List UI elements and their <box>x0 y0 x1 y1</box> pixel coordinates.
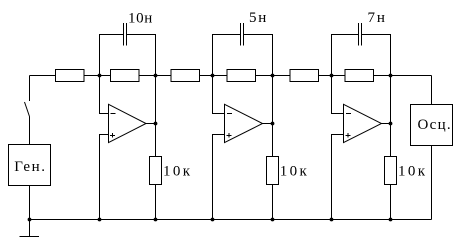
capacitor C2 loop right wire <box>244 35 273 76</box>
capacitor C3 loop left wire <box>332 35 359 76</box>
wire: U3 output to node B3 <box>382 123 391 125</box>
op-amp U2 <box>225 104 263 142</box>
resistor R7 load 10к stage 1 <box>150 157 162 185</box>
wire: node A1 vertical down to inverting input <box>100 76 109 114</box>
oscilloscope box <box>411 105 453 146</box>
op-amp U2 minus sign <box>227 113 232 115</box>
wire: node A3 vertical down to inverting input <box>332 76 344 114</box>
node: bottom rail dot at A3 <box>330 218 334 222</box>
op-amp U3 plus sign <box>346 133 351 138</box>
svg-text:7н: 7н <box>368 10 387 26</box>
switch S1 <box>25 102 30 117</box>
ground stub wire <box>29 220 31 237</box>
node: bottom rail dot at A1 <box>98 218 102 222</box>
resistor R1 (input series) <box>56 70 85 82</box>
generator G1 box <box>9 145 51 186</box>
resistor R4 (stage 2 series, inside C2 loop) <box>227 70 256 82</box>
wire: U1 output to node B1 <box>146 123 156 125</box>
capacitor C2 loop left wire <box>213 35 241 76</box>
resistor R8 load 10к stage 2 <box>267 157 279 185</box>
capacitor C1 loop left wire <box>100 35 124 76</box>
wire: oscilloscope to bottom rail <box>431 146 433 220</box>
op-amp U1 plus sign <box>110 133 115 138</box>
resistor R3 (between stage 1 and 2) <box>171 70 200 82</box>
svg-text:5н: 5н <box>249 10 268 26</box>
capacitor C1 loop right wire <box>126 35 155 76</box>
op-amp U1 minus sign <box>111 113 116 115</box>
op-amp U1 <box>109 104 147 142</box>
wire: node B2 vertical (rail to load resistor to bottom) <box>272 76 274 220</box>
node B1 dot <box>154 74 158 78</box>
ground <box>20 236 40 238</box>
capacitor C2 plates <box>241 23 244 46</box>
wire: node B1 vertical (rail to load resistor to bottom) <box>155 76 157 220</box>
wire: node A2 vertical down to inverting input <box>213 76 225 114</box>
node A3 dot <box>330 74 334 78</box>
wire: U2 output to node B2 <box>263 123 273 125</box>
wire: top rail corner down to oscilloscope <box>431 76 433 105</box>
node: U1 output junction dot <box>154 122 158 126</box>
wire: node B3 vertical (rail to load resistor to bottom) <box>390 76 392 220</box>
op-amp U3 <box>344 104 382 142</box>
wire: non-inverting input down to bottom rail <box>332 135 344 220</box>
node A1 dot <box>98 74 102 78</box>
node: U3 output junction dot <box>389 122 393 126</box>
wire: switch to generator <box>29 117 31 145</box>
resistor R5 (between stage 2 and 3) <box>290 70 319 82</box>
node B3 dot <box>389 74 393 78</box>
node B2 dot <box>271 74 275 78</box>
wire: non-inverting input down to bottom rail <box>213 135 225 220</box>
capacitor C1 plates <box>123 23 126 46</box>
svg-text:Осц.: Осц. <box>418 117 452 133</box>
node: U2 output junction dot <box>271 122 275 126</box>
node: bottom rail dot at B1 <box>154 218 158 222</box>
resistor R6 (stage 3 series, inside C3 loop) <box>345 70 374 82</box>
svg-text:10к: 10к <box>280 163 310 179</box>
capacitor C3 plates <box>358 23 361 46</box>
node: junction dot bottom-left <box>28 218 32 222</box>
op-amp U2 plus sign <box>227 133 232 138</box>
op-amp U3 minus sign <box>346 113 351 115</box>
svg-text:Ген.: Ген. <box>14 159 46 175</box>
node: bottom rail dot at B3 <box>389 218 393 222</box>
node: bottom rail dot at B2 <box>271 218 275 222</box>
wire: non-inverting input down to bottom rail <box>100 135 109 220</box>
wire: bottom ground rail <box>30 219 432 221</box>
svg-text:10к: 10к <box>398 163 428 179</box>
svg-text:10к: 10к <box>163 163 193 179</box>
resistor R9 load 10к stage 3 <box>385 157 397 185</box>
node: bottom rail dot at A2 <box>211 218 215 222</box>
wire: top rail <box>30 75 432 77</box>
wire: left vertical from top rail to switch <box>29 76 31 102</box>
node A2 dot <box>211 74 215 78</box>
svg-text:10н: 10н <box>128 11 153 27</box>
capacitor C3 loop right wire <box>361 35 390 76</box>
wire: generator to bottom rail <box>29 186 31 220</box>
resistor R2 (stage 1 series, inside C1 loop) <box>111 70 140 82</box>
